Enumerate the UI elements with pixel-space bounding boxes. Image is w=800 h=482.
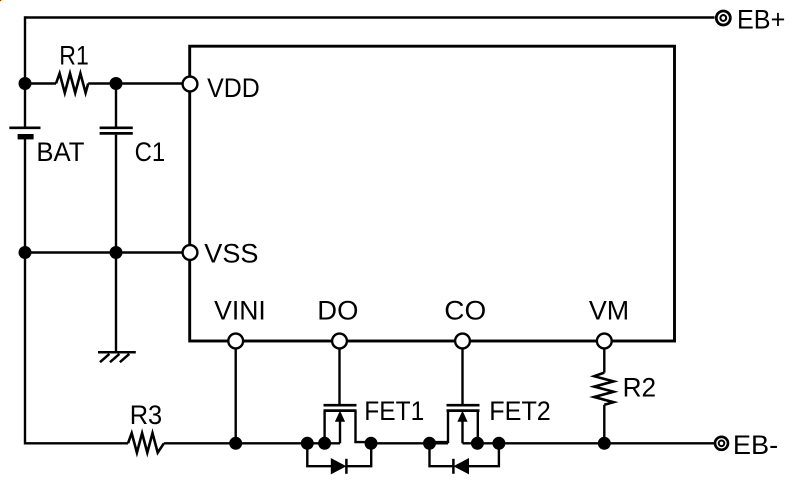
svg-text:FET1: FET1 [364,396,424,426]
wire left vertical upper [24,16,26,127]
svg-text:CO: CO [444,295,486,325]
pin VM [597,334,612,349]
wire R2 down [603,405,605,444]
wire top rail EB+ [25,16,715,18]
svg-text:FET2: FET2 [489,396,551,426]
transistor FET1 [324,405,372,443]
wire R3 to FET1 [164,442,340,444]
node junction FET1-source-a [301,437,314,450]
terminal EB- [715,437,728,450]
corner artifact [0,0,2,1]
wire VM down [603,348,605,372]
svg-text:BAT: BAT [36,137,84,167]
resistor R3 [128,433,164,452]
node junction FET2-source-b [492,437,505,450]
wire to R1 [25,82,56,84]
svg-text:EB-: EB- [733,430,778,460]
node junction C1-top [110,77,123,90]
pin CO [455,334,470,349]
svg-text:R3: R3 [130,400,163,430]
node junction VSS-left [19,246,32,259]
terminal EB+ [716,11,730,25]
wire left vertical lower [24,139,26,445]
wire VINI down [234,348,236,443]
node junction VSS-C1 [110,246,123,259]
svg-text:R2: R2 [623,373,657,403]
wire C1 to ground [115,253,117,353]
transistor FET2 [430,405,480,443]
svg-text:VINI: VINI [214,295,266,325]
wire R1 to C1 node [88,82,116,84]
wire bottom-left corner to R3 [25,442,128,444]
node junction VDD-left [19,77,32,90]
wire DO gate [338,348,340,404]
svg-text:EB+: EB+ [737,4,785,34]
wire bottom rail to EB- [477,442,714,444]
svg-text:VDD: VDD [207,73,260,103]
node junction VM-rail [598,437,611,450]
svg-text:DO: DO [317,295,358,325]
node junction FET1-source-b [318,437,331,450]
resistor R1 [56,73,88,92]
diode FET2 body [430,443,499,474]
capacitor C1 [100,84,133,253]
pin VINI [228,334,243,349]
node junction VINI-rail [229,437,242,450]
wire FET1 drain to FET2 drain [371,442,448,444]
svg-text:C1: C1 [135,137,166,167]
resistor R2 [594,373,613,405]
wire FET2 source stub [463,442,478,444]
IC U1 box [190,46,675,341]
svg-text:VM: VM [589,295,629,325]
node junction FET2-drain [423,437,436,450]
wire VSS row [25,251,183,253]
pin VDD [183,77,198,92]
diode FET1 body [307,443,371,474]
svg-text:VSS: VSS [204,238,258,268]
wire node to VDD pin [116,82,183,84]
node junction FET1-drain [365,437,378,450]
node junction FET2-source-a [471,437,484,450]
ground [98,352,136,362]
wire CO gate [461,348,463,404]
battery BAT [9,128,40,140]
pin DO [332,334,347,349]
pin VSS [183,245,198,260]
svg-text:R1: R1 [59,40,89,70]
